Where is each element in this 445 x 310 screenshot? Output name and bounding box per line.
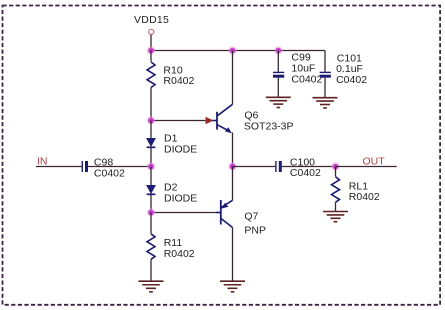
label D1 value [164,133,197,156]
junction at VDD rail left [147,46,155,54]
svg-text:DIODE: DIODE [164,192,197,204]
svg-text:DIODE: DIODE [164,143,197,155]
svg-text:C0402: C0402 [290,167,321,179]
wire R11 bottom to ground [150,259,152,281]
capacitor C100 [276,161,280,172]
label C100 value [290,156,321,179]
svg-text:SOT23-3P: SOT23-3P [244,121,294,133]
power symbol VDD15 [149,29,154,34]
wire output node to C100 [233,166,276,168]
junction at emitter output node [228,162,236,170]
wire IN stub [36,166,82,168]
svg-text:Q7: Q7 [244,211,258,223]
wire D2 to Q7 base node [150,194,152,212]
svg-text:R0402: R0402 [349,191,380,203]
svg-text:R0402: R0402 [163,75,194,87]
svg-text:C0402: C0402 [94,167,125,179]
arrow on Q6 base wire [206,117,214,125]
wire Q7 base horizontal [151,212,216,214]
wire Q6 collector to rail [232,51,234,105]
label C98 value [94,157,125,180]
wire Q6 base horizontal [151,120,213,122]
label R10 value [163,64,194,87]
wire rail to R10 top [150,51,152,62]
transistor Q6 [213,104,233,133]
wire R10 bottom to Q6 base node [150,88,152,121]
wire input node to D2 top [150,167,152,186]
diode D1 [147,138,156,147]
node VDD15 label [134,14,169,26]
transistor Q7 [216,200,233,228]
capacitor C99 [273,51,284,98]
capacitor C101 [320,51,331,98]
wire Q7 emitter to output node [232,167,234,201]
diode D2 [147,185,156,194]
node OUT label [363,155,386,167]
ground under RL1 [323,212,348,222]
wire D1 to input node [150,147,152,166]
ground under R11 [139,281,164,292]
label Q6 value [244,109,294,132]
wire RL1 bottom to ground [335,202,337,211]
resistor R10 [147,62,155,88]
label Q7 value [244,211,266,237]
svg-text:C0402: C0402 [336,74,367,86]
wire C98 to input node [88,166,151,168]
wire OUT node to RL1 [335,167,337,177]
junction at Q6 collector / rail [228,46,236,54]
wire C100 to OUT node [282,166,336,168]
wire VDD15 circle to top rail [150,35,152,51]
wire Q6 emitter to output node [232,133,234,167]
junction at C99 / rail [274,46,282,54]
svg-text:VDD15: VDD15 [134,14,169,26]
label D2 value [164,182,197,205]
svg-text:C0402: C0402 [291,73,322,85]
wire node to R11 top [150,213,152,234]
ground under C101 [313,98,338,108]
ground under Q7 [220,281,245,292]
svg-text:OUT: OUT [363,155,386,167]
node IN label [37,155,48,167]
wire OUT stub [336,166,397,168]
resistor R11 [147,234,155,259]
label R11 value [164,237,195,260]
junction at Q7 base node [147,208,155,216]
junction at input node [147,162,155,170]
wire node to D1 top [150,121,152,139]
label C101 value [336,52,367,86]
wire top rail [151,50,325,52]
svg-text:IN: IN [37,155,48,167]
junction at OUT node [331,162,339,170]
junction at Q6 base node [147,116,155,124]
svg-text:PNP: PNP [244,225,266,237]
resistor RL1 [332,177,340,202]
wire Q7 collector to ground [232,228,234,282]
label C99 value [291,52,322,86]
ground under C99 [266,97,291,107]
label RL1 value [349,180,380,203]
svg-text:R0402: R0402 [164,248,195,260]
capacitor C98 [82,161,86,172]
